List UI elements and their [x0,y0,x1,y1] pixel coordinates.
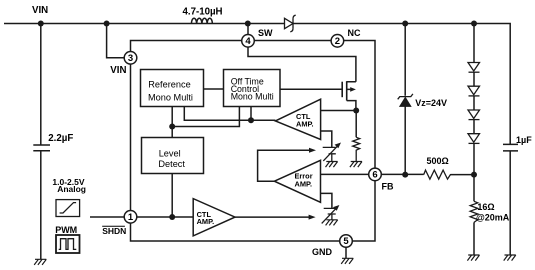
wire rail to pin 3 [107,24,131,58]
svg-text:Reference: Reference [148,79,190,89]
wire bus y126.5 [172,107,239,127]
wire CTL AMP bottom output arrow [235,215,316,220]
svg-text:Vz=24V: Vz=24V [415,98,447,108]
svg-text:6: 6 [372,170,377,181]
ground G7 below 1uF [504,255,516,261]
svg-text:GND: GND [312,247,333,257]
ground G3 below internal resistor [350,162,362,168]
node junction dot bus y120 [248,117,254,123]
pin 6 circle [369,168,382,181]
svg-text:AMP.: AMP. [295,180,313,189]
node junction dot rail/pin3 [104,21,110,27]
ground G1 below 2.2uF [34,259,46,265]
node FB label [382,181,394,191]
svg-text:Mono Multi: Mono Multi [231,92,274,102]
node NC label [348,28,361,38]
pin 2 circle [331,35,344,48]
capacitor C2 1uF [503,135,532,151]
wire CTL AMP top lower stub to variable cap [321,131,332,147]
svg-text:500Ω: 500Ω [427,156,449,166]
IC block outline [131,41,376,242]
svg-text:2.2µF: 2.2µF [48,133,73,144]
resistor R2 16 ohm [470,201,510,222]
svg-text:SW: SW [258,28,273,38]
node junction dot FB/LED string [471,172,477,178]
node VIN label [32,5,48,16]
pin 5 circle [340,235,353,248]
wire Error AMP apex feedback arrow [258,148,316,182]
variable capacitor upper [323,143,341,162]
node junction dot bus y126.5 [169,124,175,130]
diode D1 schottky [285,15,296,32]
node GND label [312,247,333,257]
svg-text:AMP.: AMP. [197,217,215,226]
LED D3 [468,86,480,96]
svg-text:Analog: Analog [57,184,86,194]
node VIN pin label [110,65,126,76]
node SHDN label [102,226,126,236]
block Off Time Control Mono Multi [224,70,281,107]
diode Z1 zener Vz=24V [398,94,447,108]
input symbol analog ramp box [52,177,86,217]
svg-text:VIN: VIN [110,65,126,76]
svg-text:1: 1 [128,212,134,223]
node junction dot rail/zener [402,21,408,27]
block Reference Mono Multi [141,70,204,107]
node junction dot FB/zener [402,172,408,178]
wire Error AMP output to FB [321,173,424,175]
wire Error AMP lower stub to variable cap [321,193,332,208]
wire pin5 to ground [345,247,347,258]
node junction dot rail/SW [245,21,251,27]
svg-text:4: 4 [245,36,251,47]
ground G4 below lower variable cap [326,220,338,226]
ground G6 below 16 ohm [467,255,479,261]
op-amp CTL AMP top [275,99,320,139]
svg-text:FB: FB [382,181,394,191]
svg-text:3: 3 [128,53,133,64]
wire gate line Off Time to MOSFET [280,88,342,90]
node junction dot rail/2.2uF [38,21,44,27]
svg-text:Level: Level [159,149,181,159]
wire between Reference and Off Time blocks [204,88,224,90]
wire 2.2uF branch [40,24,42,260]
svg-text:2: 2 [335,36,340,47]
pin 4 circle [242,35,255,48]
wire zener branch [404,24,406,175]
op-amp CTL AMP bottom [193,199,235,236]
wire SHDN pin1 line [90,216,193,218]
input symbol PWM pulse box [55,225,79,253]
svg-text:4.7-10µH: 4.7-10µH [183,7,223,18]
block Level Detect [142,138,204,174]
wire Reference stub to Level Detect [171,107,173,138]
svg-text:VIN: VIN [32,5,48,16]
pin 3 circle [124,52,137,65]
LED D2 [468,63,480,73]
node SW label [258,28,273,38]
LED D4 [468,110,480,120]
wire 16 ohm branch [473,175,475,255]
svg-text:NC: NC [348,28,361,38]
op-amp Error AMP [274,160,320,202]
node junction dot rail/LED string [471,21,477,27]
svg-text:PWM: PWM [55,225,77,235]
capacitor C1 2.2uF [33,133,73,151]
LED D5 [468,134,480,144]
wire SW pin4 to MOSFET drain [248,41,356,82]
node junction dot pin1 wire [169,214,175,220]
svg-text:Mono Multi: Mono Multi [148,93,193,103]
pin 1 circle [124,211,137,224]
wire internal bus y120 [184,107,275,121]
variable capacitor lower [322,205,340,223]
wire Off Time stub to bus y120 [250,107,252,121]
node junction dot MOSFET source [353,108,359,114]
wire 1uF to ground [509,151,511,255]
svg-text:16Ω: 16Ω [477,202,494,212]
wire CTL AMP top upper stub to source node [321,111,357,138]
transistor Q1 MOSFET [342,81,356,110]
ground G5 below pin 5 [341,258,353,264]
ground G2 below upper variable cap [326,162,338,168]
wire VIN top rail [4,24,510,145]
wire LED string branch [473,24,475,175]
inductor L1 4.7-10uH [183,7,223,24]
resistor R internal sense [353,137,360,161]
svg-text:Detect: Detect [158,159,185,169]
svg-text:@20mA: @20mA [476,213,510,223]
svg-text:AMP.: AMP. [296,119,314,128]
svg-text:SHDN: SHDN [102,226,126,236]
svg-text:1µF: 1µF [516,135,532,145]
svg-text:5: 5 [343,236,349,247]
wire rail to pin 4 [247,24,249,42]
wire 500 ohm to LED node [451,174,475,176]
resistor R1 500 ohm [424,156,451,179]
wire Level Detect to pin1 wire [171,174,173,218]
